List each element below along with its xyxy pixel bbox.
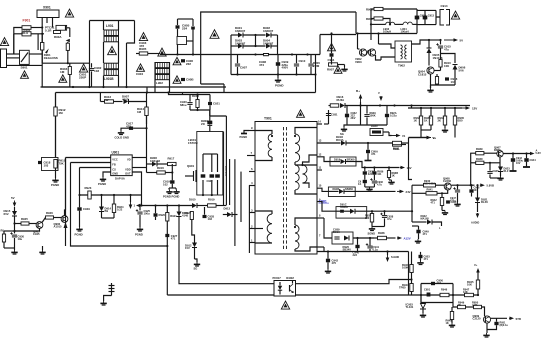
diode D913 bbox=[227, 212, 232, 217]
resistor R93B bbox=[387, 171, 390, 178]
capacitor C907 bbox=[235, 64, 240, 66]
wire corner left down bbox=[55, 93, 57, 158]
svg-text:R931: R931 bbox=[393, 147, 400, 151]
resistor R937 bbox=[370, 214, 373, 223]
inductor L903 bbox=[386, 22, 395, 24]
wire loop bottom bbox=[102, 217, 115, 219]
capacitor C938 bbox=[382, 216, 387, 218]
wire L/N to fuse bbox=[14, 28, 22, 55]
warning triangle below R904 bbox=[59, 75, 67, 83]
capacitor C925 bbox=[137, 212, 142, 214]
svg-text:V902V903: V902V903 bbox=[355, 57, 362, 64]
transistor Q904 bbox=[427, 67, 434, 74]
primary bus y205 bbox=[136, 204, 141, 208]
choke L901 winding lower bbox=[104, 63, 119, 69]
capacitor C934 bbox=[385, 114, 389, 117]
T901 secondary winding 1 bbox=[295, 134, 300, 162]
warning triangle near L902 top bbox=[173, 57, 181, 65]
series capacitor C908 bbox=[264, 53, 268, 56]
resistor R932 bbox=[419, 116, 422, 125]
snubber capacitor C924 bbox=[215, 174, 220, 177]
zener D921 bbox=[475, 198, 480, 203]
ground R948 bbox=[449, 323, 455, 327]
warning triangle below opto bbox=[281, 301, 289, 309]
resistor R906 bleeder bbox=[308, 64, 313, 66]
opto wires right bbox=[296, 280, 412, 284]
capacitor C953 bbox=[420, 252, 422, 255]
feedback corner wires bbox=[71, 163, 168, 247]
transistor Q907 regulator bbox=[497, 151, 503, 157]
feedback to optocoupler wires bbox=[167, 294, 274, 296]
regulator ground bar bbox=[510, 170, 517, 172]
warning triangle below S901 bbox=[21, 71, 29, 79]
T901 pin9 gnd bbox=[241, 133, 247, 135]
svg-text:F901: F901 bbox=[23, 19, 31, 23]
ground C949 bbox=[415, 239, 421, 243]
svg-text:R920: R920 bbox=[159, 213, 166, 217]
choke L902 frame bbox=[146, 87, 148, 93]
arrow sense bbox=[428, 137, 431, 139]
net arrow V bbox=[380, 96, 382, 98]
wire bottom loop left bbox=[42, 63, 89, 87]
optocoupler IC902 bbox=[274, 281, 296, 297]
svg-text:PGND: PGND bbox=[98, 182, 106, 186]
resistor R943 bbox=[410, 265, 413, 273]
arrow down sound gnd bbox=[387, 255, 389, 259]
ground C917 bbox=[118, 131, 124, 135]
svg-text:R919: R919 bbox=[208, 198, 215, 202]
ground protection bbox=[11, 250, 17, 254]
capacitor C952 bbox=[496, 318, 498, 321]
gnd R942 bbox=[442, 211, 448, 215]
bridge diode D904 bbox=[266, 44, 271, 49]
electrolytic C947 bbox=[455, 190, 460, 192]
capacitor C911 bbox=[330, 53, 334, 56]
capacitor C951 bbox=[427, 293, 431, 297]
arrow vs out bbox=[428, 137, 431, 139]
transistor Q906 bbox=[61, 216, 68, 223]
svg-text:12V: 12V bbox=[472, 107, 477, 111]
capacitor C935b bbox=[363, 180, 367, 183]
capacitor C905 loop bbox=[178, 18, 194, 20]
row sound gnd bbox=[372, 226, 385, 228]
svg-text:V: V bbox=[378, 91, 380, 95]
capacitor C935 bbox=[363, 171, 367, 174]
arrow down feedback bbox=[130, 202, 132, 206]
capacitor C919 bbox=[170, 180, 174, 183]
svg-text:T902: T902 bbox=[398, 64, 405, 68]
bridge wiring bbox=[231, 34, 238, 36]
resistor R914 bbox=[145, 107, 148, 116]
svg-text:D916RU3A: D916RU3A bbox=[337, 95, 345, 102]
row sound box bbox=[336, 207, 367, 219]
svg-text:C922: C922 bbox=[207, 179, 214, 183]
svg-text:C931: C931 bbox=[331, 113, 338, 117]
diode arrow at node bbox=[66, 39, 70, 43]
bridge diode D901 bbox=[238, 33, 243, 38]
wire to zener bbox=[441, 54, 456, 64]
row 16V output wire bbox=[356, 162, 400, 168]
svg-text:16V: 16V bbox=[407, 166, 412, 170]
B+ rail bbox=[329, 105, 337, 107]
diode arrow D900 bbox=[45, 49, 49, 54]
shunt regulator IC903 TL431 bbox=[421, 304, 426, 309]
output arrow 5.8V bbox=[531, 153, 532, 155]
capacitor C926 bbox=[154, 213, 158, 216]
svg-text:R9062.2M: R9062.2M bbox=[313, 61, 320, 68]
diode D920 bbox=[344, 236, 349, 241]
snubber C952b bbox=[366, 150, 370, 153]
T901 left pins bbox=[249, 130, 255, 132]
ground left lower bbox=[39, 250, 45, 254]
boost diode D916 bbox=[340, 103, 345, 108]
arrow 12V out bbox=[461, 107, 467, 109]
warning triangle right top bbox=[451, 11, 459, 19]
svg-text:C921: C921 bbox=[213, 102, 220, 106]
resistor R916 bbox=[157, 171, 166, 174]
svg-text:C909220u400V: C909220u400V bbox=[282, 60, 289, 70]
warning triangle above L902 bbox=[158, 48, 166, 56]
capacitor C946 bbox=[446, 200, 450, 203]
zener line D908 bbox=[152, 162, 157, 167]
svg-text:X901: X901 bbox=[43, 6, 51, 10]
svg-text:C904: C904 bbox=[136, 72, 143, 76]
gnd C947 bbox=[454, 202, 460, 206]
thermistor RT901 bbox=[22, 32, 31, 36]
connector P901 AC input bbox=[1, 49, 7, 68]
sense resistor R919 bbox=[208, 204, 217, 207]
resistor R936 bbox=[372, 171, 376, 174]
cluster wires bbox=[169, 93, 211, 95]
pin11 stub bbox=[317, 169, 322, 171]
bus y195 bbox=[80, 194, 142, 196]
svg-text:Vs: Vs bbox=[433, 136, 437, 140]
choke L901 winding upper bbox=[104, 30, 119, 36]
zener D914 bbox=[99, 207, 104, 212]
opto transistor bbox=[289, 285, 291, 292]
diode D922 left bbox=[427, 220, 432, 225]
svg-text:Q901: Q901 bbox=[187, 164, 195, 168]
svg-text:A12V: A12V bbox=[404, 237, 411, 241]
resistor R903 vertical bbox=[66, 43, 69, 50]
ground R934 bbox=[442, 128, 448, 132]
wire pin12 up to B+ bbox=[328, 110, 330, 124]
main AC bus y54.5 bbox=[160, 54, 320, 56]
svg-text:Q907D880: Q907D880 bbox=[494, 146, 501, 153]
ground standby bbox=[431, 84, 456, 86]
svg-text:D921RLZ6: D921RLZ6 bbox=[481, 198, 488, 205]
snubber capacitor C923 bbox=[210, 174, 215, 177]
capacitor C948 bbox=[469, 189, 473, 192]
resistor R933 bbox=[429, 116, 432, 125]
svg-text:R907: R907 bbox=[327, 68, 334, 72]
resistor R927 bbox=[2, 234, 5, 242]
upper vcc arrow bbox=[477, 271, 479, 273]
zener D923 bbox=[498, 167, 503, 172]
svg-text:T901: T901 bbox=[264, 117, 272, 121]
capacitor C949 bbox=[416, 230, 420, 234]
diode D91B bbox=[339, 189, 344, 194]
capacitor C936 bbox=[372, 181, 377, 183]
svg-text:R922: R922 bbox=[185, 211, 192, 215]
resistor R926 bbox=[46, 216, 54, 219]
resistor R946 bbox=[440, 293, 449, 296]
resistor R940 series bbox=[424, 183, 436, 187]
svg-text:R930: R930 bbox=[371, 124, 378, 128]
svg-text:DAP 8A: DAP 8A bbox=[115, 177, 125, 181]
drive transformer T902 bbox=[395, 41, 412, 62]
ground pgnd2 bbox=[137, 227, 143, 231]
svg-text:AUDIO: AUDIO bbox=[471, 221, 479, 225]
svg-text:PGND PGND: PGND PGND bbox=[163, 195, 179, 199]
svg-text:C951: C951 bbox=[424, 288, 431, 292]
warning triangle in bridge box bbox=[210, 30, 219, 39]
row 24V wire bbox=[317, 188, 328, 191]
resistor R945 bbox=[476, 280, 479, 289]
resistor R947 bbox=[465, 293, 474, 296]
row 16V box bbox=[330, 157, 356, 166]
IC left pin wires bbox=[66, 157, 111, 159]
resistor R935 bbox=[453, 116, 456, 125]
wire vcc rail bbox=[412, 40, 430, 44]
diode D918 bbox=[341, 141, 346, 146]
svg-text:C929: C929 bbox=[83, 207, 90, 211]
capacitor C927 bbox=[165, 234, 169, 237]
svg-text:IC903TL431: IC903TL431 bbox=[406, 303, 414, 310]
capacitor C920 cluster top bbox=[187, 103, 192, 105]
row 24V box bbox=[328, 187, 355, 197]
row C box bbox=[332, 232, 353, 244]
ground R907 bbox=[344, 65, 346, 68]
T901 primary winding lower bbox=[267, 214, 272, 243]
svg-text:R90A: R90A bbox=[54, 35, 62, 39]
sense diode D910 bbox=[192, 203, 197, 208]
chassis symbol bbox=[111, 283, 113, 296]
resistor R928 bbox=[330, 104, 339, 107]
output arrow VCC1 bbox=[444, 39, 455, 41]
warning triangle lower bbox=[137, 64, 145, 72]
wire protection loop bbox=[4, 230, 15, 232]
wire R932 bottom bbox=[421, 129, 431, 131]
transformer T901 box bbox=[255, 122, 317, 255]
right vertical of bridge loop bbox=[315, 55, 317, 93]
emitter arrow Q906 bbox=[64, 222, 68, 228]
MOSFET Q901 symbol bbox=[185, 175, 193, 177]
zener D915 bbox=[12, 211, 17, 216]
svg-text:SB360: SB360 bbox=[345, 187, 353, 191]
svg-text:C910: C910 bbox=[299, 59, 306, 63]
svg-text:C925100u: C925100u bbox=[144, 209, 151, 216]
svg-text:SR360: SR360 bbox=[347, 157, 355, 161]
snubber caps row C912 C913 bbox=[417, 9, 436, 11]
capacitor C950 bbox=[431, 282, 435, 285]
resistor R939B bbox=[476, 161, 484, 164]
fuse F901 bbox=[22, 26, 31, 30]
output arrow standby ctl bbox=[509, 317, 511, 319]
IC U901 controller bbox=[111, 155, 133, 176]
svg-text:R916: R916 bbox=[157, 166, 164, 170]
second bus y92.5 bbox=[56, 92, 316, 94]
rail 5V wire bbox=[412, 184, 424, 186]
svg-text:5.8VB: 5.8VB bbox=[487, 184, 495, 188]
svg-text:R93C: R93C bbox=[476, 157, 483, 161]
pin9 ground wire bbox=[244, 131, 249, 134]
resistor R950 bbox=[474, 305, 482, 308]
ground pair bbox=[169, 187, 176, 189]
svg-text:C920681u: C920681u bbox=[180, 100, 187, 107]
svg-text:D91B: D91B bbox=[333, 187, 340, 191]
capacitor C943 bbox=[511, 158, 515, 162]
svg-text:24V: 24V bbox=[406, 190, 411, 194]
current sense lower wires bbox=[155, 217, 157, 220]
snubber bottom wire bbox=[347, 124, 387, 126]
resistor R905 bbox=[139, 52, 148, 55]
svg-text:L901B: L901B bbox=[104, 77, 114, 81]
svg-text:D919: D919 bbox=[334, 157, 341, 161]
resistor R931 bbox=[393, 143, 402, 146]
capacitor C906 to chassis bbox=[181, 59, 185, 62]
ground TL431 bbox=[420, 313, 426, 317]
diode D920b bbox=[350, 209, 355, 214]
inductor L904 bbox=[403, 22, 412, 24]
choke L902 winding lower bbox=[155, 75, 169, 80]
capacitor C921 bbox=[208, 102, 212, 105]
svg-text:C913: C913 bbox=[428, 14, 435, 18]
svg-text:R941: R941 bbox=[427, 188, 434, 192]
regulator left vertical bbox=[471, 153, 476, 185]
svg-text:R921: R921 bbox=[170, 214, 177, 218]
main filter capacitor C909 bbox=[276, 62, 280, 66]
capacitor C941 bbox=[367, 246, 372, 248]
resistor R907 bbox=[329, 63, 338, 66]
svg-text:R926: R926 bbox=[46, 211, 53, 215]
filter capacitor C915 bbox=[438, 46, 443, 48]
warning triangle near input bbox=[0, 38, 8, 46]
MOSFET box Q901 bbox=[197, 132, 223, 196]
zener D906 bbox=[453, 65, 458, 70]
resistor R934 bbox=[443, 116, 446, 125]
T901 right pins bbox=[317, 123, 322, 125]
svg-text:C901220P: C901220P bbox=[79, 73, 87, 80]
svg-text:FB: FB bbox=[112, 162, 116, 166]
svg-text:5V: 5V bbox=[11, 196, 15, 200]
posistor box TH901 bbox=[177, 37, 187, 45]
ground snubber bbox=[344, 125, 347, 127]
gnd bar row143 bbox=[365, 160, 372, 162]
svg-text:R929100K: R929100K bbox=[370, 111, 377, 118]
svg-text:GND: GND bbox=[112, 172, 118, 176]
power resistor R930 bbox=[370, 129, 383, 136]
rectifier diode D905 bbox=[427, 48, 432, 53]
svg-text:PGND: PGND bbox=[135, 233, 143, 237]
capacitor C937 blk bbox=[340, 210, 344, 213]
svg-text:R939: R939 bbox=[476, 147, 483, 151]
input arrow 5V bbox=[14, 201, 16, 205]
resistor R941 bbox=[426, 192, 437, 195]
svg-text:SG: SG bbox=[194, 267, 198, 271]
warning triangle R907 bbox=[334, 66, 342, 74]
warning triangle above T901 bbox=[297, 110, 305, 118]
svg-text:R925: R925 bbox=[21, 217, 28, 221]
svg-text:VCC: VCC bbox=[112, 157, 118, 161]
bottom bus y87 bbox=[41, 86, 227, 88]
row 143 wire bbox=[317, 142, 341, 144]
driver transistor Q902 bbox=[359, 49, 366, 56]
svg-text:5V: 5V bbox=[460, 39, 464, 43]
svg-text:PGND: PGND bbox=[51, 183, 59, 187]
T901 secondary winding 3 bbox=[295, 225, 299, 249]
svg-text:L901: L901 bbox=[106, 24, 114, 28]
zener D912 bbox=[192, 243, 197, 248]
svg-text:COLD GND: COLD GND bbox=[115, 136, 129, 140]
capacitor C931 bbox=[326, 114, 331, 116]
svg-text:C90B: C90B bbox=[186, 78, 194, 82]
output arrow 24V bbox=[397, 190, 401, 192]
bridge bottom wire bbox=[231, 74, 316, 76]
svg-text:C939D91A: C939D91A bbox=[333, 228, 340, 235]
resistor R915 bbox=[54, 160, 57, 169]
svg-text:L902: L902 bbox=[156, 81, 163, 85]
output arrow 16V bbox=[400, 167, 402, 169]
wire switch to bus bbox=[29, 53, 42, 55]
svg-text:IC902: IC902 bbox=[286, 276, 294, 280]
zener D909 bbox=[207, 121, 212, 124]
output arrow audio bbox=[397, 237, 399, 239]
warning triangle C901 bbox=[79, 64, 87, 72]
warning triangle below bbox=[173, 76, 181, 84]
arrow out aux bbox=[392, 135, 398, 137]
wire top-left drop bbox=[55, 93, 57, 108]
bridge diode D902 bbox=[266, 33, 271, 38]
arrow down protection bbox=[477, 213, 479, 215]
ground below R915 bbox=[52, 178, 58, 182]
bridge diode D903 bbox=[238, 44, 243, 49]
svg-text:PC817: PC817 bbox=[273, 276, 282, 280]
wire R914 to pin bbox=[146, 158, 148, 165]
resistor R913 1W bbox=[105, 100, 114, 103]
svg-text:D910: D910 bbox=[189, 198, 196, 202]
svg-text:VD: VD bbox=[127, 157, 131, 161]
main fb bus junctions bbox=[427, 294, 429, 296]
svg-text:R943100K: R943100K bbox=[402, 263, 409, 270]
T901 primary winding upper bbox=[268, 134, 272, 157]
svg-text:R946: R946 bbox=[441, 288, 448, 292]
resistor R939 bbox=[476, 152, 484, 155]
resistor R921 bbox=[166, 213, 169, 222]
svg-text:OUT: OUT bbox=[125, 172, 131, 176]
capacitor C933 bbox=[364, 115, 369, 117]
svg-text:PGND: PGND bbox=[240, 135, 248, 139]
resistor R925 bbox=[21, 222, 29, 225]
resistor R944 bbox=[410, 284, 413, 292]
driver transistor Q903 bbox=[368, 49, 375, 56]
resistor R918 bbox=[196, 100, 199, 108]
svg-text:R944: R944 bbox=[402, 283, 409, 287]
gnd zener bbox=[497, 176, 503, 180]
resistor R902 bbox=[54, 31, 61, 34]
resistor R942 bbox=[440, 198, 443, 206]
capacitor C928 bbox=[203, 215, 207, 218]
ground main bbox=[277, 75, 279, 79]
coupling wires to T902 bbox=[379, 44, 396, 48]
svg-text:VDD: VDD bbox=[125, 167, 131, 171]
Q909 collector out bbox=[491, 317, 507, 319]
svg-text:D913: D913 bbox=[224, 207, 231, 211]
transistor Q908 bbox=[444, 183, 451, 190]
node box primary input bbox=[41, 34, 43, 42]
B+ up arrow bbox=[360, 97, 362, 102]
T901 core bbox=[284, 127, 287, 250]
